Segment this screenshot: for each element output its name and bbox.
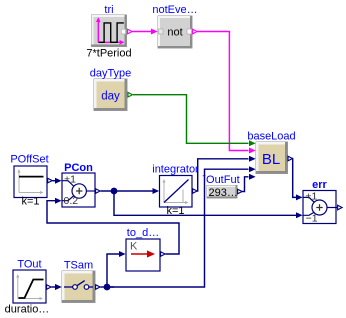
tri output pad — [121, 29, 125, 34]
wire baseLoad→err plus input (navy) — [293, 159, 303, 201]
TOut y-axis (gray) — [17, 276, 19, 299]
err input lines — [303, 197, 315, 202]
PCon input lines — [62, 181, 74, 187]
svg-text:7*tPeriod: 7*tPeriod — [86, 48, 131, 60]
tri icon x-axis (magenta) — [98, 41, 120, 43]
dayType output connector (hollow green triangle) — [128, 92, 133, 97]
svg-text:integrator: integrator — [152, 164, 199, 176]
block dayType (day type source) — [94, 79, 127, 111]
TOut ramp curve (black) — [19, 280, 44, 299]
block tri (BooleanPulse source) — [92, 15, 127, 47]
svg-text:BL: BL — [262, 151, 280, 168]
tri output connector (hollow magenta triangle) — [128, 29, 133, 34]
svg-text:0.2: 0.2 — [64, 195, 79, 207]
to_degC output connector — [161, 252, 166, 257]
tri icon y-axis (magenta) — [97, 21, 99, 43]
block TSam (sampler) — [62, 271, 95, 303]
junction node after TSam — [104, 284, 111, 291]
svg-text:err: err — [312, 179, 327, 191]
to_degC red arrow — [131, 253, 148, 255]
block integrator — [160, 176, 193, 208]
PCon output line — [86, 190, 95, 192]
wire POffSet→PCon (navy) — [53, 178, 62, 184]
PCon circle — [72, 184, 86, 198]
svg-text:tri: tri — [104, 4, 113, 16]
svg-text:day: day — [101, 91, 120, 103]
block POffSet (constant) — [14, 166, 47, 198]
err output connector — [338, 205, 343, 210]
POffSet x-axis (gray) — [19, 192, 42, 194]
wire integrator→baseLoad ECon (navy) — [197, 156, 256, 191]
svg-text:K: K — [130, 241, 138, 253]
TSam icon: line-circle-arm-circle-line — [64, 286, 73, 288]
PCon plus sign — [76, 188, 82, 194]
TOut x-axis (gray) — [18, 298, 41, 300]
svg-text:TOut: TOut — [17, 259, 41, 271]
err output line — [327, 207, 337, 209]
svg-text:k=1: k=1 — [166, 205, 184, 217]
wire notEve→baseLoad storeHistory (Boolean, magenta) — [197, 32, 256, 154]
svg-text:−1: −1 — [306, 212, 318, 224]
err circle — [312, 200, 327, 215]
svg-text:notEve…: notEve… — [152, 4, 197, 16]
POffSet y-axis (gray) — [18, 171, 20, 193]
wire TSam→junction (navy) — [101, 286, 115, 288]
wire tri→notEve (Boolean, magenta) — [133, 29, 158, 35]
svg-text:k=1: k=1 — [21, 196, 39, 208]
integrator output connector — [193, 189, 198, 194]
svg-text:ˉOutFut: ˉOutFut — [202, 174, 239, 186]
svg-text:to_d…: to_d… — [127, 227, 159, 239]
svg-text:dayType: dayType — [90, 68, 132, 80]
wire dayType→baseLoad typeOfDay (green) — [133, 95, 256, 147]
svg-text:POffSet: POffSet — [10, 153, 48, 165]
TSam input arrow (navy) — [55, 284, 62, 290]
baseLoad output connector — [288, 156, 293, 161]
TOut output connector — [47, 285, 52, 290]
integrator ramp (navy) — [164, 180, 189, 203]
integrator y-axis (gray) — [163, 181, 165, 203]
POffSet output connector — [48, 178, 53, 183]
block baseLoad (load predictor BL) — [256, 142, 288, 174]
wire TOutFut→baseLoad TOutFut input (navy) — [242, 174, 256, 192]
svg-text:+1: +1 — [305, 190, 317, 202]
block TOutFut (constant expression 293...) — [207, 186, 238, 200]
tri icon pulse wave (black) — [99, 23, 124, 42]
notEve input pad — [159, 29, 164, 34]
notEve output pad — [187, 29, 192, 34]
svg-text:293…: 293… — [209, 187, 238, 199]
svg-text:duratio…: duratio… — [5, 303, 50, 315]
svg-text:+1: +1 — [64, 174, 76, 186]
svg-text:not: not — [167, 27, 182, 39]
svg-text:PCon: PCon — [64, 162, 93, 174]
err plus sign — [316, 204, 322, 210]
svg-text:baseLoad: baseLoad — [247, 131, 295, 143]
integrator x-axis (gray) — [164, 202, 187, 204]
block to_degC (unit conversion K) — [126, 239, 160, 271]
junction node after PCon — [111, 188, 118, 195]
wire PCon→integrator with junction (navy) — [101, 188, 160, 194]
TOutFut output connector — [238, 189, 243, 194]
block notEve (logical Not) — [158, 16, 192, 48]
block err (Add: +1, -1) — [303, 190, 337, 224]
wire TOut→TSam (navy) — [52, 284, 62, 290]
block PCon (Add: +1, 0.2) — [62, 173, 95, 207]
integrator tick (gray) — [182, 190, 184, 203]
svg-text:TSam: TSam — [64, 260, 93, 272]
PCon output connector — [96, 189, 101, 194]
block TOut (ramp source) — [13, 270, 46, 303]
POffSet constant line (black) — [19, 176, 44, 178]
TSam output connector — [96, 285, 101, 290]
wire junction→baseLoad TOut input (navy) — [107, 166, 256, 287]
wire junction→err minus input (navy) — [114, 191, 303, 218]
wire to_degC→PCon 0.2 input (navy) — [47, 198, 179, 254]
notEve output connector — [193, 29, 198, 34]
wire junction→to_degC input (navy) — [107, 251, 126, 287]
